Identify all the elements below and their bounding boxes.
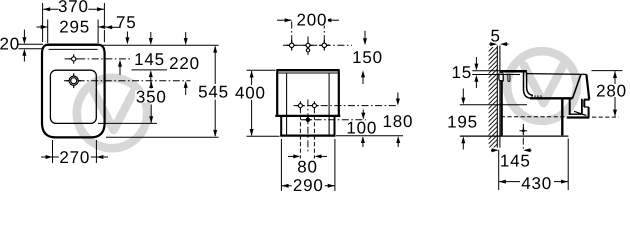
- dim 400 extension top: [247, 69, 276, 71]
- side view: bowl bottom: [530, 97, 573, 99]
- fixing hole axes dashed verticals: [299, 109, 301, 159]
- dim 75 arrows (top edge to tap line): [126, 32, 128, 38]
- svg-text:145: 145: [134, 50, 165, 69]
- svg-text:350: 350: [136, 87, 167, 106]
- top view: drain centerline (dash-dot): [64, 80, 191, 82]
- dim label 545: [198, 86, 230, 98]
- dim 295 arrows outside: [37, 26, 48, 28]
- side view: rim top line: [527, 73, 586, 76]
- body bottom extension line (545 bottom ref): [106, 136, 219, 138]
- svg-text:145: 145: [500, 151, 531, 170]
- front view: top edge (thick): [276, 69, 339, 71]
- dim 370 extension line right: [103, 3, 105, 25]
- dim 20 arrows: [23, 30, 25, 38]
- side view: deck top edge: [501, 70, 527, 73]
- fixing holes centerline (dash-dot): [294, 105, 399, 107]
- top edge extension line to the right (545 top ref): [103, 44, 219, 46]
- svg-text:545: 545: [198, 83, 229, 102]
- dim label 100: [346, 122, 377, 133]
- front view: plinth top edge (full width): [275, 115, 340, 117]
- top view: tap hole symbol: [73, 54, 75, 58]
- svg-text:20: 20: [0, 34, 20, 53]
- dim label 200: [296, 14, 328, 26]
- dim 195 arrows: [462, 89, 464, 99]
- watermark glyph left (V): [94, 92, 134, 130]
- side view: pedestal foot front edge: [561, 99, 563, 136]
- svg-text:280: 280: [596, 81, 627, 100]
- watermark glyph right (V): [524, 66, 563, 104]
- dim 15 extension lines: [472, 70, 500, 72]
- dim label 370: [58, 0, 88, 12]
- dim 290 dimension line: [281, 185, 335, 187]
- svg-text:295: 295: [59, 18, 90, 37]
- dim label 270: [59, 151, 91, 163]
- side view: floor line: [460, 135, 569, 137]
- fixing hole left symbol: [299, 101, 301, 105]
- top view: inner bowl outline: [50, 70, 96, 123]
- floor extension line right of base: [336, 135, 403, 137]
- side view: bowl bottom ridge ticks: [531, 95, 533, 98]
- svg-text:400: 400: [235, 83, 266, 102]
- side view: front step: [584, 99, 590, 101]
- dim 430 dimension line: [499, 181, 520, 183]
- dim 270 line and arrows: [53, 156, 97, 158]
- dim label 280: [595, 85, 628, 97]
- front view: tap hole axis left (dash-dot): [291, 22, 293, 49]
- front view: inner wall right: [328, 74, 330, 135]
- dim 145 line and arrows: [491, 149, 497, 151]
- dim 400 extension bottom: [247, 135, 280, 137]
- front view: tap hole middle symbol: [307, 37, 309, 42]
- dim 80 arrows: [288, 155, 294, 157]
- dim 280 extension top: [592, 70, 623, 72]
- svg-text:5: 5: [490, 27, 500, 46]
- dim label 430: [520, 177, 553, 189]
- front view: base bottom edge: [280, 135, 335, 137]
- dim label 180: [382, 115, 413, 126]
- drain centerline (dash-dot): [301, 119, 366, 121]
- side view: inner front wall: [573, 75, 581, 99]
- top view: back rim inner line: [49, 48, 98, 50]
- watermark ring right: [507, 51, 577, 121]
- side view: wall bracket tab: [499, 73, 503, 80]
- fixing hole right symbol: [313, 101, 315, 105]
- side view: outlet shape: [569, 99, 571, 115]
- dim 370 dimension line with arrows: [43, 8, 104, 10]
- dim 220 arrows: [185, 32, 187, 38]
- front view: center axis (dash-dot): [307, 100, 309, 153]
- svg-text:15: 15: [451, 63, 472, 82]
- dim label 290: [292, 179, 325, 191]
- dim 295 extension line right: [97, 20, 99, 44]
- dim 290 extension left: [280, 139, 282, 191]
- dim label 350: [135, 90, 167, 102]
- front view: rim second line: [278, 72, 339, 74]
- dim 370 extension line left: [42, 3, 44, 42]
- tile layer line: [499, 46, 501, 148]
- drain axis vertical (dash-dot): [522, 124, 524, 150]
- front view: tap hole left symbol: [291, 40, 293, 44]
- dim 75 leader arrow: [112, 26, 120, 28]
- dim label 295: [59, 21, 91, 32]
- dim 430 extension right: [567, 139, 569, 191]
- drain cross marker: [520, 130, 528, 132]
- svg-text:220: 220: [169, 54, 200, 73]
- dim 270 extension line right: [95, 140, 97, 163]
- front view: tap holes centerline (dash-dot): [283, 44, 352, 46]
- dim 180 arrows: [397, 93, 399, 100]
- top view: tap hole centerline (dash-dot): [65, 58, 131, 60]
- front view: tap hole right symbol: [323, 40, 325, 44]
- dim label 400: [234, 86, 267, 98]
- fixing hole height line: [460, 104, 527, 106]
- svg-text:150: 150: [352, 48, 383, 67]
- hidden outlet line right segment (280 lower ref, dashed): [592, 116, 619, 118]
- svg-text:100: 100: [346, 118, 377, 137]
- dim 290 extension right: [334, 139, 336, 191]
- svg-text:370: 370: [58, 0, 89, 16]
- dim 350 dimension line: [150, 82, 152, 89]
- front view: tap hole axis right (dash-dot): [323, 22, 325, 49]
- svg-text:195: 195: [447, 113, 478, 132]
- dim 400 dimension line: [251, 71, 253, 85]
- bowl bottom extension line (350 lower ref): [98, 122, 157, 124]
- dim 295 extension line left: [47, 20, 49, 44]
- top view: back rim top edge (thick): [47, 44, 99, 46]
- front view: body outer outline: [277, 70, 339, 115]
- svg-text:75: 75: [116, 13, 137, 32]
- svg-text:270: 270: [59, 148, 90, 167]
- svg-text:80: 80: [297, 158, 318, 177]
- side view: hidden outlet line (dashed): [501, 116, 567, 118]
- dim 20 extension lines: [19, 43, 44, 45]
- dim 150 arrows: [364, 31, 366, 39]
- svg-text:180: 180: [383, 112, 414, 131]
- side view: deck front edge (double line) and curve into bowl: [524, 72, 532, 98]
- dim 15 arrows: [475, 57, 477, 64]
- dim 200 arrows: [277, 19, 292, 21]
- svg-text:430: 430: [521, 174, 552, 193]
- front view: inner wall left: [286, 74, 288, 135]
- drain diamond symbol: [305, 116, 311, 123]
- dim 280 dimension line: [614, 71, 616, 84]
- dim 430 extension left: [498, 150, 500, 190]
- top view: bidet outer body outline: [42, 45, 105, 138]
- bowl top extension line (145 lower ref): [132, 69, 168, 71]
- side view: deck slot detail: [508, 74, 510, 82]
- side view: front face: [586, 74, 589, 99]
- watermark ring left: [77, 78, 147, 148]
- dim 145 arrows: [150, 32, 152, 38]
- side view: back face: [501, 70, 503, 136]
- svg-text:290: 290: [293, 176, 324, 194]
- dim 545 dimension line: [214, 47, 216, 85]
- dim 270 extension line left: [52, 140, 54, 163]
- dim 5 arrows: [489, 43, 492, 45]
- wall face line: [496, 46, 498, 148]
- svg-text:200: 200: [297, 11, 328, 30]
- dim 100 arrows: [362, 110, 364, 114]
- top view: drain hole symbol: [73, 73, 75, 77]
- front view: plinth sides: [280, 117, 282, 136]
